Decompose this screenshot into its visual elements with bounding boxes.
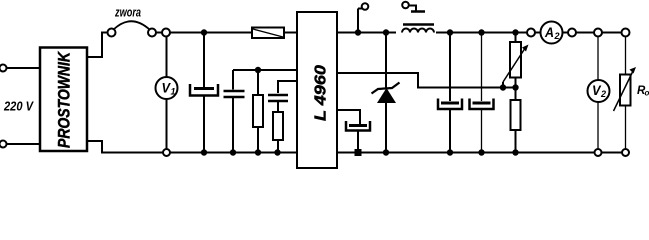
node feedback wiper (500, 84, 506, 90)
node C4 bottom (447, 149, 453, 155)
jumper arc zwora (114, 21, 150, 29)
open junction V1 bottom (163, 149, 170, 156)
node test point (355, 29, 361, 35)
voltmeter V1 branch wire (166, 37, 168, 78)
feedback wire (337, 73, 516, 88)
potentiometer P1 (503, 33, 529, 88)
svg-text:220 V: 220 V (3, 100, 34, 114)
node feedback divider (512, 84, 518, 90)
node C4 top (447, 29, 453, 35)
svg-text:PROSTOWNIK: PROSTOWNIK (56, 51, 74, 148)
node C1 top (201, 29, 207, 35)
resistor R3 (511, 88, 521, 153)
bottom rail (602, 152, 623, 154)
svg-text:o: o (645, 89, 649, 98)
bottom rail (170, 152, 296, 154)
wire fuse to IC (284, 32, 297, 34)
node C5 top (478, 29, 484, 35)
compensation branch wire (278, 81, 297, 93)
wire rectifier top output (87, 33, 108, 58)
capacitor C6 soft-start (337, 110, 370, 152)
node C5 bottom (478, 149, 484, 155)
svg-text:zwora: zwora (114, 5, 141, 20)
test point TP2 (402, 2, 425, 12)
terminal input top (0, 65, 7, 72)
open junction Ro bottom (622, 149, 629, 156)
bottom rail (338, 152, 595, 154)
node R2 bottom (274, 149, 280, 155)
wire IC output top rail (337, 32, 396, 34)
wire (576, 32, 594, 34)
wire (7, 143, 41, 145)
ammeter A2 (541, 22, 563, 44)
svg-text:1: 1 (171, 87, 176, 97)
terminal zwora right (148, 29, 156, 37)
fuse F1 (252, 28, 284, 39)
svg-text:A: A (544, 24, 554, 40)
voltmeter V2 (588, 37, 610, 150)
svg-text:L 4960: L 4960 (313, 65, 330, 121)
wire (535, 32, 541, 34)
node diode top (383, 29, 389, 35)
svg-text:2: 2 (600, 89, 606, 99)
wire (602, 32, 622, 34)
terminal before A2 (527, 29, 535, 37)
capacitor C1 electrolytic (190, 33, 218, 152)
wire link (156, 32, 162, 34)
terminal V2 top (594, 29, 602, 37)
node R1 top (255, 67, 261, 73)
wire (563, 32, 569, 34)
open junction V2 bottom (595, 149, 602, 156)
capacitor C3 (268, 95, 288, 112)
node C1 bottom (201, 149, 207, 155)
resistor R2 (273, 112, 283, 152)
node R3 bottom (512, 149, 518, 155)
capacitor C2 (224, 70, 245, 152)
terminal Ro top (622, 29, 630, 37)
node C2 bottom (230, 149, 236, 155)
terminal zwora left (108, 29, 116, 37)
node D1 bottom (383, 149, 389, 155)
terminal V1 tap (162, 29, 170, 37)
wire V1 to rail (166, 99, 168, 149)
wire top rail to fuse (170, 32, 252, 34)
resistor R1 (253, 70, 263, 152)
terminal after A2 (568, 29, 576, 37)
op-amp U1 L4960 regulator (297, 12, 337, 168)
node C6 bottom (355, 149, 362, 156)
sub-rail to IC pin (233, 69, 297, 71)
diode D1 Schottky (372, 33, 400, 153)
node R1 bottom (255, 149, 261, 155)
rectifier PROSTOWNIK (40, 48, 87, 152)
voltmeter V1 (156, 77, 178, 99)
node pot top (512, 29, 518, 35)
svg-text:2: 2 (554, 31, 560, 41)
test point TP1 (358, 3, 368, 32)
capacitor C5 electrolytic (470, 33, 494, 152)
wire rectifier bottom output (87, 141, 110, 153)
load resistor Ro (614, 37, 649, 150)
wire inductor to A2 (436, 32, 527, 34)
inductor L1 (402, 25, 434, 33)
wire (7, 67, 41, 69)
capacitor C4 electrolytic (438, 33, 462, 152)
bottom rail (110, 152, 163, 154)
terminal input bottom (0, 141, 7, 148)
